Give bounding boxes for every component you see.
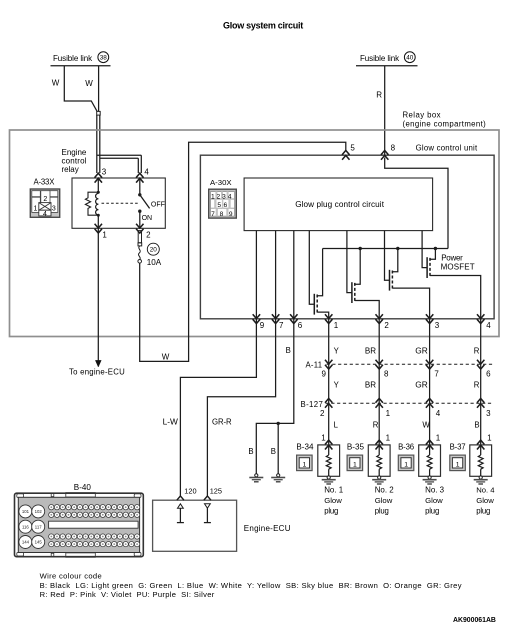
svg-text:W: W <box>162 352 170 361</box>
pin 8 of glow control unit <box>381 144 396 160</box>
svg-text:2: 2 <box>384 321 389 330</box>
svg-text:B: B <box>271 447 276 456</box>
svg-text:1: 1 <box>436 434 441 443</box>
relay coil branch wire <box>97 178 99 228</box>
wire W left from fusible link 38 <box>64 66 97 112</box>
svg-text:3: 3 <box>52 205 56 212</box>
svg-text:(engine compartment): (engine compartment) <box>403 120 487 129</box>
label Y (middle, wire to B-34) <box>334 381 340 390</box>
svg-text:101: 101 <box>22 509 30 514</box>
svg-text:8: 8 <box>391 144 396 153</box>
svg-text:Glow: Glow <box>425 496 443 505</box>
svg-text:AK900061AB: AK900061AB <box>453 617 496 624</box>
svg-text:relay: relay <box>62 165 79 174</box>
svg-text:B-127: B-127 <box>301 400 324 409</box>
label BR (upper, wire to B-35) <box>365 346 376 355</box>
B-127 crossing pin 2 <box>320 398 332 418</box>
glow control unit pin 1 (bottom) <box>325 314 339 330</box>
svg-text:6: 6 <box>486 369 491 378</box>
power MOSFET Q4 <box>427 249 481 319</box>
svg-text:38: 38 <box>100 55 108 62</box>
svg-text:Y: Y <box>334 381 340 390</box>
intermediate connector A-11 dashed line <box>327 363 493 365</box>
glow plug No. 2 box <box>368 445 390 476</box>
svg-text:2: 2 <box>216 193 220 200</box>
svg-text:Glow control unit: Glow control unit <box>416 144 478 153</box>
glow plug control circuit label <box>295 200 385 209</box>
svg-text:L: L <box>334 421 339 430</box>
wire to glow plug B-34 <box>328 319 330 445</box>
ground (glow plug No. 4) <box>474 476 488 484</box>
svg-text:9: 9 <box>229 211 233 218</box>
node: drain bus junction Q3 <box>396 247 399 250</box>
svg-text:4: 4 <box>486 321 491 330</box>
svg-text:L-W: L-W <box>163 417 178 427</box>
label B (pin 6 wire) <box>286 346 291 355</box>
relay box (engine compartment) outline <box>10 130 500 337</box>
relay coil <box>96 192 99 215</box>
engine ECU box <box>153 500 237 551</box>
svg-text:No. 2: No. 2 <box>375 485 395 494</box>
svg-text:B-37: B-37 <box>450 442 466 451</box>
wire colour code line 1 <box>40 581 462 590</box>
glow plug No. 4 heater resistor <box>478 445 483 476</box>
svg-text:Glow plug control circuit: Glow plug control circuit <box>295 200 385 209</box>
connector icon [1] B-35 <box>347 455 363 471</box>
svg-text:B-34: B-34 <box>296 442 314 451</box>
glow control unit pin 3 (bottom) <box>426 314 440 330</box>
svg-text:OFF: OFF <box>151 201 165 208</box>
wire from relay pin 1 to engine-ECU <box>95 228 101 367</box>
svg-text:W: W <box>85 79 93 88</box>
label 125 <box>210 486 222 495</box>
connector icon [1] B-37 <box>450 455 466 471</box>
switch lever (OFF position) <box>140 195 150 209</box>
glow control unit pin 7 (bottom) <box>272 314 284 330</box>
glow plug B-37 entry chevron <box>477 440 484 449</box>
label B (right ground) <box>271 447 276 456</box>
intermediate connector B-127 dashed line <box>326 402 493 404</box>
svg-text:Y: Y <box>334 346 340 355</box>
relay pin 2 <box>136 224 151 240</box>
svg-text:Glow: Glow <box>375 496 393 505</box>
svg-text:8: 8 <box>220 211 224 218</box>
document number AK900061AB <box>453 617 496 624</box>
label B-127 <box>301 400 324 409</box>
svg-text:1: 1 <box>353 461 357 468</box>
glow plug connector B-35 label <box>347 442 365 451</box>
wire to glow control unit pin 9 <box>255 231 257 319</box>
glow control unit pin 9 (bottom) <box>253 314 265 330</box>
svg-text:10A: 10A <box>147 258 162 267</box>
relay resistor (parallel with coil) <box>85 192 98 215</box>
power MOSFET Q4 gate wire <box>422 231 427 268</box>
label No. 2 Glow plug <box>375 485 395 515</box>
svg-text:120: 120 <box>184 486 196 495</box>
glow plug No. 1 heater resistor <box>326 445 331 476</box>
svg-text:5: 5 <box>217 202 221 209</box>
svg-text:40: 40 <box>406 55 414 62</box>
label L-W <box>163 417 178 427</box>
svg-text:R: Red P: Pink V: Violet PU: R: Red P: Pink V: Violet PU: Purple SI: … <box>40 590 215 599</box>
svg-text:Glow: Glow <box>476 496 494 505</box>
wire GR-R from pin 7 to ECU pin 125 <box>207 319 275 496</box>
svg-text:7: 7 <box>279 321 284 330</box>
label Engine-ECU <box>244 524 291 533</box>
label W (right wire) <box>85 79 93 88</box>
svg-text:BR: BR <box>365 381 376 390</box>
svg-text:3: 3 <box>435 321 440 330</box>
ground (glow plug No. 2) <box>372 476 386 484</box>
label No. 3 Glow plug <box>425 485 445 515</box>
relay pin 4 <box>136 168 149 183</box>
node: coil bottom junction <box>97 214 100 217</box>
svg-text:To engine-ECU: To engine-ECU <box>69 368 125 377</box>
connector B-40 label <box>74 483 92 492</box>
svg-text:7: 7 <box>211 211 215 218</box>
label W on fuse wire <box>162 352 170 361</box>
svg-text:Glow system circuit: Glow system circuit <box>223 20 303 30</box>
svg-text:ON: ON <box>142 215 153 222</box>
svg-text:7: 7 <box>434 369 439 378</box>
glow control unit outline <box>200 155 494 319</box>
glow plug pin 1 label (B-36) <box>436 434 441 443</box>
label W (left wire) <box>52 78 60 87</box>
A-11 crossing pin 8 <box>376 360 390 379</box>
svg-text:3: 3 <box>486 409 491 418</box>
svg-text:plug: plug <box>476 507 490 516</box>
glow plug pin 1 label (B-37) <box>487 434 492 443</box>
label 10A <box>147 258 162 267</box>
label OFF <box>151 201 165 208</box>
svg-text:GR: GR <box>415 345 428 355</box>
wire L-W from pin 9 to ECU pin 120 <box>180 319 256 496</box>
svg-text:W: W <box>422 421 430 430</box>
wire from pin 8 to MOSFET drain bus <box>385 158 448 249</box>
wire W from fuse to glow control unit pin 5 <box>140 142 346 361</box>
svg-text:B-40: B-40 <box>74 483 92 492</box>
connector A-30X label <box>210 178 232 187</box>
glow control unit pin 4 (bottom) <box>477 314 491 330</box>
connector icon [1] B-36 <box>398 455 414 471</box>
ECU pin 120 internal input symbol <box>177 504 184 523</box>
wire W right from fusible link 38 <box>98 66 100 112</box>
svg-text:1: 1 <box>33 205 37 212</box>
svg-text:R: R <box>376 90 382 99</box>
wire B from pin 6 to grounds <box>256 319 294 474</box>
A-11 crossing pin 9 <box>322 360 333 379</box>
fusible link 38 label <box>53 52 109 63</box>
svg-text:1: 1 <box>386 409 391 418</box>
svg-text:1: 1 <box>456 461 460 468</box>
svg-text:B: B <box>286 346 291 355</box>
svg-text:1: 1 <box>487 434 492 443</box>
pin 5 of glow control unit <box>342 144 355 160</box>
svg-text:3: 3 <box>102 168 107 177</box>
dashed actuation link <box>102 202 140 204</box>
engine control relay box <box>72 178 165 228</box>
label B (lower, wire to B-37) <box>474 421 479 430</box>
glow plug pin 1 label (B-34) <box>321 434 326 443</box>
glow control unit label <box>416 144 478 153</box>
svg-text:plug: plug <box>324 507 338 516</box>
A-11 crossing pin 7 <box>426 360 440 379</box>
svg-text:2: 2 <box>146 230 151 239</box>
svg-text:4: 4 <box>228 193 232 200</box>
glow plug connector B-34 label <box>296 442 314 451</box>
label GR-R <box>212 418 232 427</box>
svg-text:102: 102 <box>35 509 43 514</box>
glow plug B-36 entry chevron <box>426 440 433 449</box>
svg-text:B-36: B-36 <box>398 442 414 451</box>
wire R from fusible link 40 to glow control unit pin 8 <box>384 66 386 155</box>
svg-text:Engine-ECU: Engine-ECU <box>244 524 291 533</box>
svg-text:GR-R: GR-R <box>212 418 232 427</box>
label R <box>376 90 382 99</box>
joint connector square <box>97 111 101 115</box>
fusible link 38 bus bar <box>51 65 111 67</box>
svg-text:117: 117 <box>35 524 42 529</box>
svg-text:No. 4: No. 4 <box>476 485 495 494</box>
B-127 crossing pin 1 <box>376 398 391 418</box>
svg-text:9: 9 <box>260 321 265 330</box>
glow plug connector B-36 label <box>398 442 414 451</box>
glow control unit pin 6 (bottom) <box>290 314 303 330</box>
engine control relay label <box>62 148 87 174</box>
ECU pin 125 chevron <box>204 496 211 500</box>
wire to glow plug B-36 <box>429 319 431 445</box>
ECU pin 120 chevron <box>177 496 184 500</box>
svg-text:B: B <box>474 421 479 430</box>
svg-text:6: 6 <box>223 202 227 209</box>
power MOSFET Q2 <box>352 249 379 319</box>
svg-text:1: 1 <box>211 193 215 200</box>
svg-text:R: R <box>474 381 480 390</box>
connector B-40 housing <box>15 493 144 558</box>
node: B wire ground junction <box>277 422 280 474</box>
B-40 center key slot <box>49 521 139 528</box>
ground (left B wire) <box>249 474 263 482</box>
double wire branch to relay pin 4 <box>97 155 142 173</box>
glow plug No. 3 heater resistor <box>427 445 432 476</box>
label BR (middle, wire to B-35) <box>365 381 376 390</box>
svg-text:20: 20 <box>150 247 158 254</box>
wire to glow control unit pin 7 <box>275 231 277 319</box>
svg-text:Relay box: Relay box <box>403 111 441 120</box>
wire colour code heading <box>40 572 102 581</box>
svg-text:1: 1 <box>102 230 107 239</box>
power MOSFET Q2 gate wire <box>347 231 352 293</box>
label GR (middle, wire to B-36) <box>415 380 428 390</box>
label A-11 <box>306 360 323 369</box>
fuse 20 (10A) body <box>138 231 142 264</box>
relay box label <box>403 111 487 129</box>
ground (glow plug No. 3) <box>423 476 437 484</box>
svg-text:B: Black LG: Light green G:: B: Black LG: Light green G: Green L: Blu… <box>40 581 462 590</box>
svg-text:BR: BR <box>365 346 376 355</box>
fusible link 40 label <box>360 52 415 63</box>
glow plug No. 1 box <box>318 445 340 476</box>
svg-text:116: 116 <box>22 524 29 529</box>
svg-text:B: B <box>248 447 253 456</box>
label To engine-ECU <box>69 368 125 377</box>
glow plug No. 3 box <box>419 445 441 476</box>
label ON <box>142 215 153 222</box>
glow control unit pin 2 (bottom) <box>376 314 390 330</box>
label GR (upper, wire to B-36) <box>415 345 428 355</box>
svg-text:9: 9 <box>322 369 327 378</box>
ground (right B wire) <box>271 474 285 482</box>
title: Glow system circuit <box>223 20 303 30</box>
connector A-33X icon <box>30 189 59 218</box>
svg-text:R: R <box>474 346 480 355</box>
svg-text:Glow: Glow <box>324 496 342 505</box>
svg-text:2: 2 <box>43 196 47 203</box>
svg-text:6: 6 <box>298 321 303 330</box>
svg-text:1: 1 <box>404 461 408 468</box>
label Y (upper, wire to B-34) <box>334 346 340 355</box>
double wire W down to engine control relay <box>97 115 100 173</box>
svg-text:Fusible link: Fusible link <box>53 54 93 63</box>
label R (lower, wire to B-35) <box>373 421 379 430</box>
B-127 crossing pin 4 <box>426 398 441 418</box>
ground (glow plug No. 1) <box>322 476 336 484</box>
svg-text:plug: plug <box>375 507 389 516</box>
svg-text:R: R <box>373 421 379 430</box>
svg-text:A-11: A-11 <box>306 360 323 369</box>
svg-text:MOSFET: MOSFET <box>441 262 475 271</box>
svg-text:A-33X: A-33X <box>34 178 56 187</box>
label W (lower, wire to B-36) <box>422 421 430 430</box>
power MOSFET Q3 <box>390 249 430 319</box>
label 120 <box>184 486 196 495</box>
connector A-33X label <box>34 178 56 187</box>
ECU pin 125 internal output symbol <box>204 504 211 523</box>
svg-text:8: 8 <box>384 369 389 378</box>
B-40 large terminals 101 102 116 117 144 145 <box>19 505 45 549</box>
wire to glow plug B-35 <box>378 319 380 445</box>
node: drain bus junction Q4 <box>434 247 437 250</box>
svg-text:125: 125 <box>210 486 222 495</box>
svg-text:144: 144 <box>22 540 30 545</box>
fuse number badge 20 <box>147 243 159 255</box>
svg-text:No. 1: No. 1 <box>324 485 344 494</box>
switch contact bottom <box>138 210 141 213</box>
wire colour code line 2 <box>40 590 215 599</box>
svg-text:3: 3 <box>222 193 226 200</box>
svg-text:145: 145 <box>35 540 43 545</box>
label R (middle, wire to B-37) <box>474 381 480 390</box>
relay pin 1 <box>95 224 108 240</box>
svg-text:Wire colour code: Wire colour code <box>40 572 102 581</box>
B-127 crossing pin 3 <box>477 398 491 418</box>
svg-text:5: 5 <box>350 144 355 153</box>
svg-text:Power: Power <box>441 253 463 262</box>
relay switch wire from pin 4 <box>139 178 141 195</box>
glow plug connector B-37 label <box>450 442 466 451</box>
svg-text:A-30X: A-30X <box>210 178 232 187</box>
glow plug B-35 entry chevron <box>376 440 383 449</box>
label No. 1 Glow plug <box>324 485 344 515</box>
MOSFET drain bus <box>323 248 448 250</box>
A-11 crossing pin 6 <box>477 360 491 379</box>
glow plug No. 2 heater resistor <box>377 445 382 476</box>
glow plug control circuit box <box>244 178 433 231</box>
power MOSFET Q1 gate wire <box>309 231 314 305</box>
switch wire to pin 2 <box>139 211 141 228</box>
glow plug B-34 entry chevron <box>325 440 332 449</box>
label L (lower, wire to B-34) <box>334 421 339 430</box>
svg-text:1: 1 <box>334 321 339 330</box>
wire to glow control unit pin 6 <box>293 231 295 319</box>
power MOSFET Q1 <box>314 249 328 319</box>
relay pin 3 <box>95 168 107 183</box>
svg-text:1: 1 <box>321 434 326 443</box>
label B (left ground) <box>248 447 253 456</box>
svg-text:W: W <box>52 78 60 87</box>
svg-text:2: 2 <box>320 409 325 418</box>
glow plug pin 1 label (B-35) <box>386 434 391 443</box>
svg-text:B-35: B-35 <box>347 442 365 451</box>
B-40 small terminals grid <box>49 505 140 547</box>
wire to glow plug B-37 <box>480 319 482 445</box>
svg-text:GR: GR <box>415 380 428 390</box>
switch contact top <box>138 193 141 196</box>
label R (upper, wire to B-37) <box>474 346 480 355</box>
svg-text:4: 4 <box>144 168 149 177</box>
node: coil top junction <box>97 191 100 194</box>
svg-text:1: 1 <box>303 461 307 468</box>
fusible link 40 bus bar <box>356 65 418 67</box>
label Power MOSFET <box>441 253 475 271</box>
connector icon [1] B-34 <box>297 455 313 471</box>
power MOSFET Q3 gate wire <box>385 231 390 281</box>
label No. 4 Glow plug <box>476 485 495 515</box>
glow plug No. 4 box <box>470 445 492 476</box>
svg-text:4: 4 <box>436 409 441 418</box>
svg-text:1: 1 <box>386 434 391 443</box>
svg-text:No. 3: No. 3 <box>425 485 445 494</box>
svg-text:4: 4 <box>43 211 47 218</box>
node: drain bus junction Q2 <box>359 247 362 250</box>
svg-text:plug: plug <box>425 507 439 516</box>
svg-text:Fusible link: Fusible link <box>360 54 400 63</box>
